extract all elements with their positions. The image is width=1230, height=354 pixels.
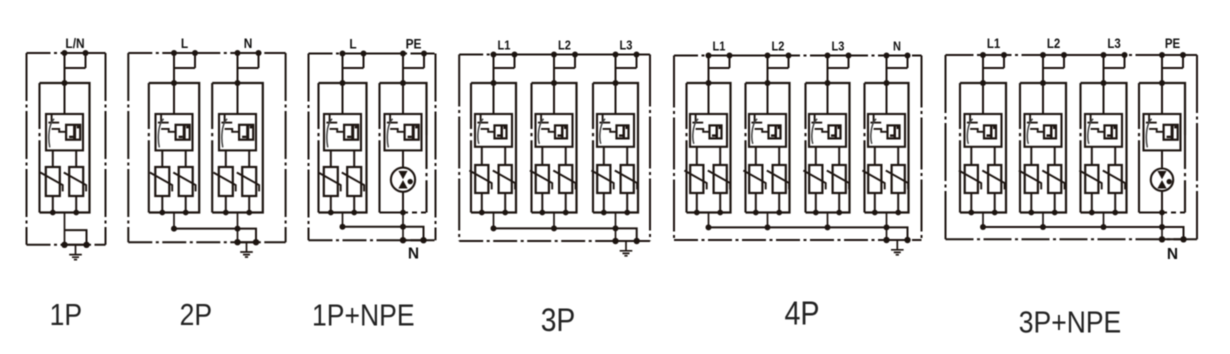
svg-text:L1: L1 — [713, 38, 726, 53]
svg-text:N: N — [244, 35, 253, 51]
svg-text:L: L — [181, 35, 188, 51]
svg-text:L/N: L/N — [65, 35, 84, 51]
svg-text:N: N — [408, 246, 419, 263]
svg-text:L: L — [349, 35, 356, 51]
svg-text:L3: L3 — [832, 38, 845, 53]
svg-text:3P: 3P — [541, 302, 576, 338]
svg-text:L1: L1 — [498, 37, 511, 52]
svg-text:L2: L2 — [772, 38, 785, 53]
svg-text:L2: L2 — [1047, 36, 1060, 51]
svg-text:L3: L3 — [1107, 36, 1120, 51]
svg-text:L1: L1 — [987, 36, 1000, 51]
svg-text:2P: 2P — [180, 298, 212, 332]
svg-text:L2: L2 — [558, 37, 571, 52]
svg-text:1P+NPE: 1P+NPE — [312, 299, 414, 333]
svg-text:1P: 1P — [50, 298, 82, 332]
svg-text:PE: PE — [1165, 36, 1180, 51]
svg-text:PE: PE — [406, 35, 422, 51]
svg-text:4P: 4P — [784, 295, 819, 332]
svg-text:L3: L3 — [620, 37, 633, 52]
svg-text:N: N — [1167, 246, 1178, 263]
svg-text:N: N — [893, 38, 901, 53]
svg-text:3P+NPE: 3P+NPE — [1019, 306, 1121, 340]
